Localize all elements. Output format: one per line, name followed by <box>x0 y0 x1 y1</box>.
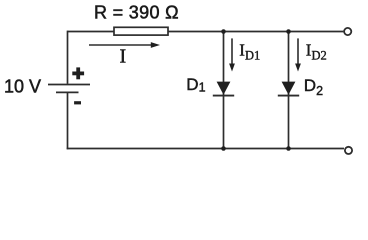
node junction top D1 <box>221 29 226 34</box>
diode D1 anode triangle <box>217 82 231 95</box>
terminal bottom-right <box>345 147 352 154</box>
current arrow I <box>89 42 160 48</box>
wire top-left segment <box>68 31 115 33</box>
wire branch D2 <box>288 32 290 149</box>
battery minus sign <box>74 101 81 104</box>
svg-text:D2: D2 <box>304 76 323 98</box>
terminal top-right <box>344 28 351 35</box>
wire top-right segment <box>168 31 343 33</box>
current arrow ID2 <box>295 38 301 71</box>
wire branch D1 <box>223 32 225 149</box>
wire left vertical upper <box>67 31 69 84</box>
battery plus sign <box>72 67 84 79</box>
node junction bottom D1 <box>221 146 226 151</box>
diode D2 cathode bar <box>278 95 299 97</box>
svg-text:10 V: 10 V <box>4 76 41 96</box>
wire bottom <box>67 148 344 150</box>
resistor R body <box>114 27 168 35</box>
battery V1 negative plate <box>56 91 79 93</box>
current arrow ID1 <box>229 38 235 71</box>
svg-text:ID1: ID1 <box>239 41 260 63</box>
wire left vertical lower <box>67 92 69 149</box>
node junction top D2 <box>286 29 291 34</box>
svg-text:D1: D1 <box>186 75 205 95</box>
svg-text:ID2: ID2 <box>306 41 327 63</box>
node junction bottom D2 <box>286 146 291 151</box>
svg-text:R = 390 Ω: R = 390 Ω <box>94 3 179 23</box>
svg-text:I: I <box>120 46 127 68</box>
battery V1 positive plate <box>48 84 90 86</box>
diode D1 cathode bar <box>213 95 234 97</box>
diode D2 anode triangle <box>282 82 296 95</box>
